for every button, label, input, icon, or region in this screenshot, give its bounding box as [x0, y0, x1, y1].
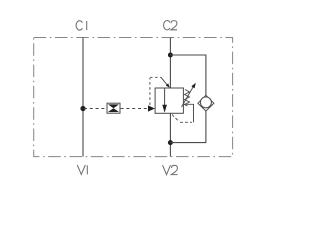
node junction pilot tap on C1 line: [80, 106, 85, 111]
adjustable spring: [185, 90, 190, 107]
wire C2 to valve top: [169, 38, 171, 89]
pilot branch vertical dashed: [149, 78, 151, 105]
spring adjustment arrow: [182, 83, 196, 107]
pilot diagonal arrowhead: [166, 83, 170, 87]
node junction top (C2 branch): [168, 53, 173, 58]
port label C1: [76, 21, 87, 30]
pilot loop spring chamber wall: [184, 104, 194, 122]
orifice R1 (restrictor box): [107, 103, 120, 113]
main relief valve envelope: [155, 88, 183, 113]
port label V1: [77, 165, 87, 174]
port label C2: [164, 21, 178, 30]
wire check-valve lower branch: [170, 111, 206, 143]
check valve CV1 (ball in seat): [198, 95, 214, 111]
valve poppet flow arrow: [162, 88, 167, 113]
wire valve bottom to V2: [169, 113, 171, 156]
pilot branch horizontal dashed: [150, 76, 161, 78]
wire C1-V1 line: [82, 38, 84, 157]
pilot arrowhead into valve: [148, 105, 155, 111]
node junction bottom (V2 branch): [168, 140, 173, 145]
pilot line from C1 (dashed): [84, 108, 107, 110]
wire check-valve upper branch: [170, 55, 206, 96]
pilot line loop horizontal dashed: [180, 121, 192, 123]
valve body boundary (dash-dot envelope): [34, 38, 233, 157]
pilot line orifice to valve (dashed): [121, 108, 148, 110]
port label V2: [163, 165, 178, 175]
pilot diagonal into valve corner: [161, 77, 168, 86]
pilot line loop to spring chamber (dashed diagonal): [172, 115, 179, 122]
